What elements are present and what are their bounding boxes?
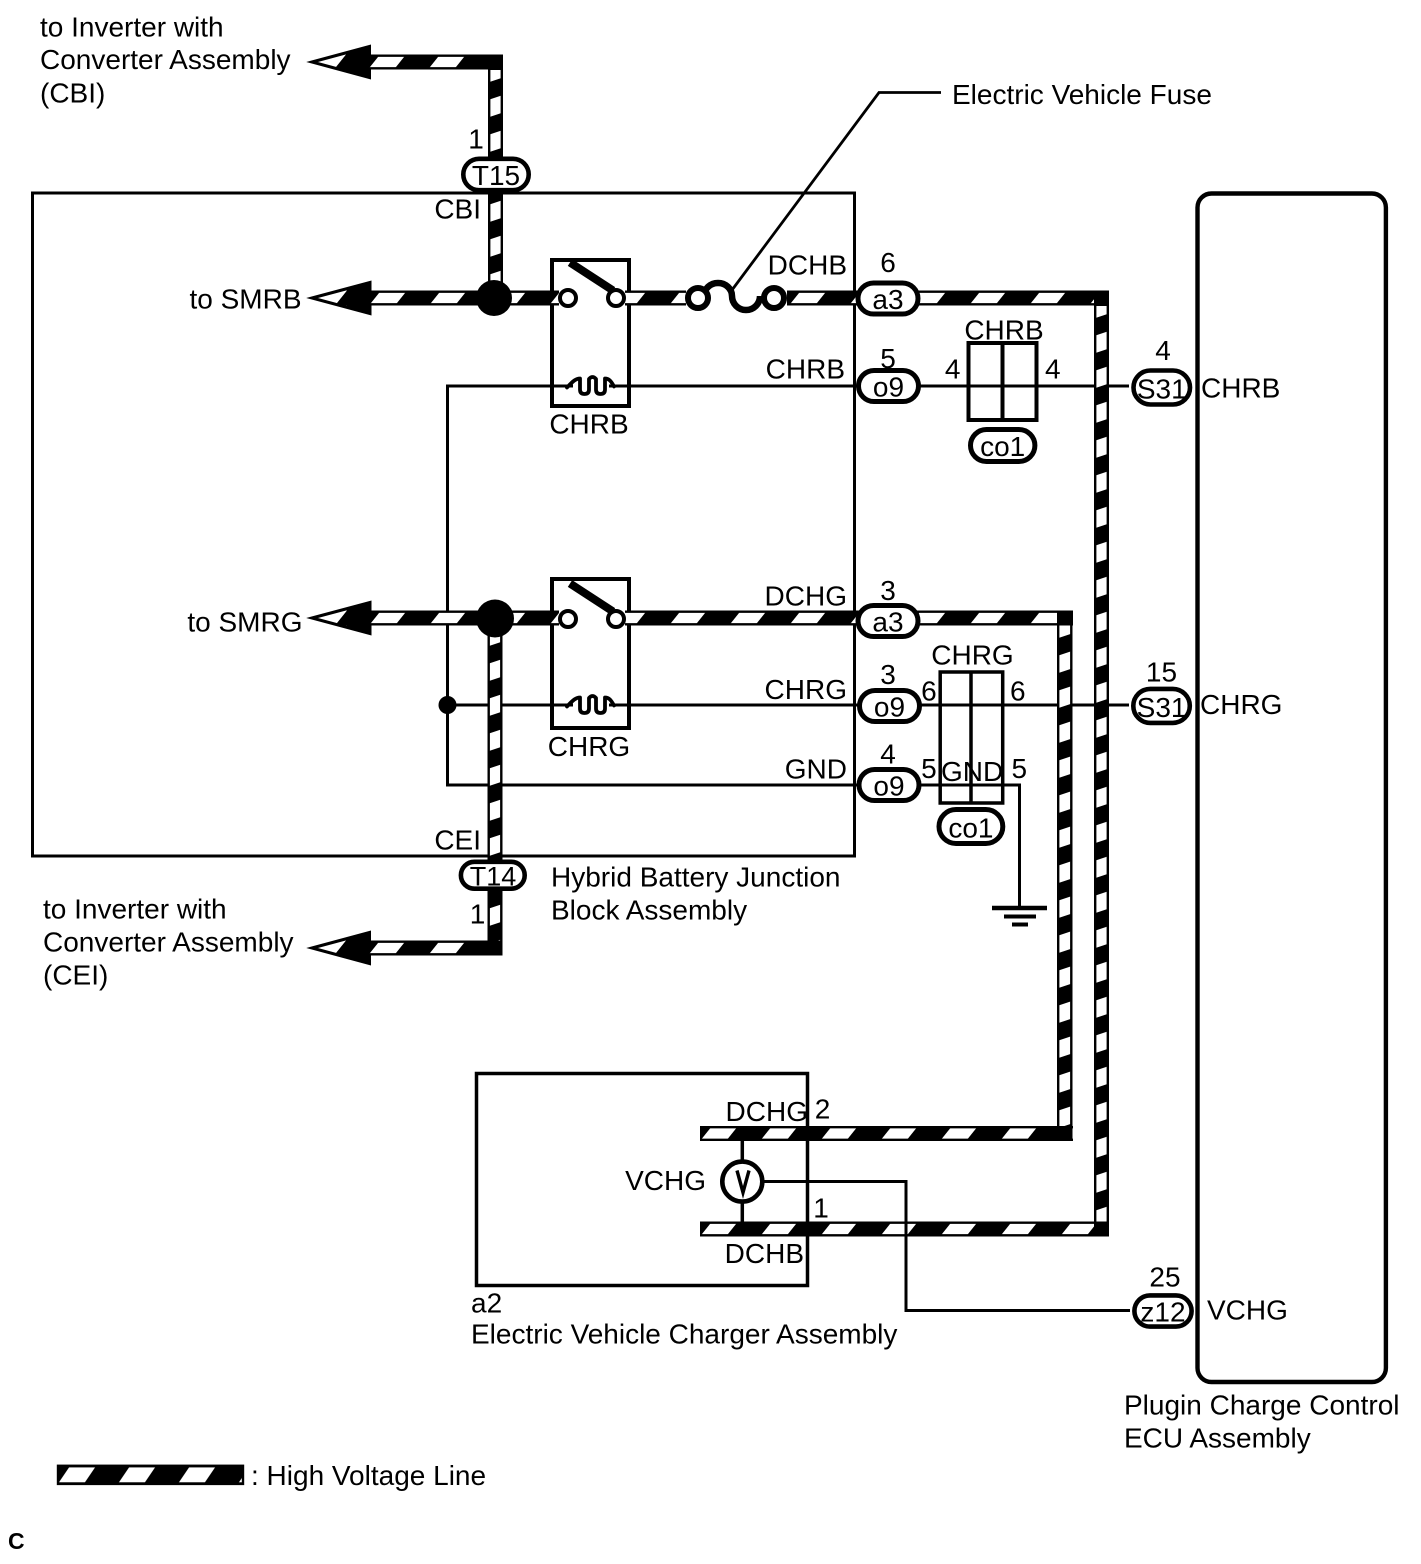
svg-text:DCHB: DCHB <box>725 1238 804 1269</box>
svg-text:(CEI): (CEI) <box>43 960 108 991</box>
label: to Inverter with Converter Assembly (CBI) <box>40 12 291 109</box>
svg-text:ECU Assembly: ECU Assembly <box>1124 1423 1311 1454</box>
connector T14 <box>461 862 525 892</box>
svg-text:6: 6 <box>1010 676 1026 707</box>
high voltage line: CEI vertical bus <box>488 619 503 948</box>
Electric Vehicle Fuse symbol <box>688 283 784 310</box>
svg-text:DCHB: DCHB <box>768 250 847 281</box>
svg-text:Plugin Charge Control: Plugin Charge Control <box>1124 1390 1400 1421</box>
svg-text:CHRB: CHRB <box>1201 373 1280 404</box>
svg-text:to Inverter with: to Inverter with <box>40 12 224 43</box>
svg-text:15: 15 <box>1146 657 1177 688</box>
connector block CHRG/GND (co1) <box>940 672 1003 803</box>
relay CHRB switch contacts <box>560 263 624 307</box>
high voltage line: charger DCHG row <box>700 1126 1073 1141</box>
connector S31 pin15 CHRG <box>1133 689 1190 723</box>
connector a3 pin6 DCHB <box>858 283 918 315</box>
label: Hybrid Battery Junction Block Assembly <box>551 862 840 926</box>
callout line: Electric Vehicle Fuse <box>732 93 941 291</box>
svg-text:Electric Vehicle Charger Assem: Electric Vehicle Charger Assembly <box>471 1319 897 1350</box>
svg-text:6: 6 <box>880 247 896 278</box>
svg-text:5: 5 <box>880 343 896 374</box>
wire: voltmeter stubs <box>741 1139 745 1161</box>
high voltage line: SMRG row with arrow to SMRG <box>312 603 1073 634</box>
svg-text:Electric Vehicle Fuse: Electric Vehicle Fuse <box>952 79 1212 110</box>
svg-text:Converter Assembly: Converter Assembly <box>40 44 291 75</box>
hv corner: CBI top <box>488 55 503 71</box>
high voltage line: DCHG vertical bus <box>1057 611 1073 1141</box>
high voltage line: CBI stub with arrow to Inverter (CBI) <box>312 47 503 78</box>
svg-text:1: 1 <box>468 124 484 155</box>
svg-text:CHRG: CHRG <box>1200 689 1282 720</box>
svg-text:CHRB: CHRB <box>964 315 1043 346</box>
svg-text:to SMRB: to SMRB <box>189 284 301 315</box>
box: Hybrid Battery Junction Block Assembly <box>33 193 855 856</box>
svg-text:to Inverter with: to Inverter with <box>43 894 227 925</box>
high voltage line: charger DCHB row <box>700 1222 1109 1237</box>
svg-text:T14: T14 <box>470 862 517 892</box>
hv corner: CEI bottom <box>488 941 503 956</box>
label: to Inverter with Converter Assembly (CEI) <box>43 894 294 991</box>
high voltage line: CBI vertical bus <box>488 55 503 298</box>
svg-text:4: 4 <box>1155 335 1171 366</box>
svg-text:CBI: CBI <box>434 194 481 225</box>
svg-text:S31: S31 <box>1137 692 1187 723</box>
svg-text:Converter Assembly: Converter Assembly <box>43 927 294 958</box>
junction dot SMRB/CBI <box>476 280 512 316</box>
svg-text:4: 4 <box>880 739 896 770</box>
high voltage line: SMRB row with arrow to SMRB <box>312 283 1109 314</box>
svg-text:6: 6 <box>921 676 937 707</box>
svg-text:co1: co1 <box>980 431 1025 462</box>
connector co1 (CHRB block) <box>971 430 1035 463</box>
svg-text:Hybrid Battery Junction: Hybrid Battery Junction <box>551 862 840 893</box>
connector o9 pin4 GND <box>859 770 919 802</box>
svg-text:25: 25 <box>1149 1262 1180 1293</box>
connector block CHRB (co1) <box>969 343 1037 420</box>
svg-text:2: 2 <box>815 1094 831 1125</box>
svg-text:CHRG: CHRG <box>548 731 630 762</box>
connector co1 (CHRG block) <box>939 810 1003 844</box>
svg-text:5: 5 <box>1012 753 1028 784</box>
svg-text:VCHG: VCHG <box>1207 1295 1288 1326</box>
relay CHRG box <box>552 579 629 728</box>
coil CHRG <box>567 696 614 713</box>
high voltage line: DCHB vertical bus <box>1094 291 1109 1237</box>
voltmeter V <box>722 1162 762 1202</box>
legend: high voltage line sample bar <box>58 1466 243 1484</box>
label: Plugin Charge Control ECU Assembly <box>1124 1390 1400 1454</box>
svg-text:DCHG: DCHG <box>765 581 847 612</box>
svg-text:o9: o9 <box>873 372 904 403</box>
wire: CHRB coil net (relay coil common to GND row) <box>448 386 1020 907</box>
svg-text:VCHG: VCHG <box>625 1165 706 1196</box>
wire: CHRG coil row to S31 <box>448 704 574 707</box>
svg-text:1: 1 <box>813 1193 829 1224</box>
coil CHRB <box>567 377 614 394</box>
relay CHRG switch contacts <box>560 584 624 628</box>
junction dot SMRG/CEI <box>476 600 514 638</box>
wire: CHRB row to S31 <box>609 385 1129 388</box>
svg-text:3: 3 <box>880 575 896 606</box>
junction dot coil common <box>439 696 457 714</box>
hv corner: DCHG bus bottom <box>1057 1126 1073 1141</box>
connector o9 pin3 CHRG <box>860 691 920 723</box>
svg-text:o9: o9 <box>873 771 904 802</box>
svg-text:S31: S31 <box>1137 374 1187 405</box>
svg-text:a2: a2 <box>471 1288 502 1319</box>
svg-text:a3: a3 <box>872 607 903 638</box>
connector S31 pin4 CHRB <box>1134 371 1191 405</box>
relay CHRB box <box>552 260 629 406</box>
svg-text:GND: GND <box>941 756 1003 787</box>
box: Plugin Charge Control ECU Assembly <box>1198 194 1386 1383</box>
connector T15 <box>463 159 528 191</box>
svg-text:CHRG: CHRG <box>931 640 1013 671</box>
svg-text:CHRG: CHRG <box>765 674 847 705</box>
hv corner: DCHB bus top <box>1094 291 1109 307</box>
ground symbol <box>992 908 1047 925</box>
svg-text:(CBI): (CBI) <box>40 78 105 109</box>
svg-text:T15: T15 <box>472 160 520 191</box>
connector a3 pin3 DCHG <box>858 606 918 638</box>
svg-text:CEI: CEI <box>434 825 481 856</box>
svg-text:co1: co1 <box>948 813 993 844</box>
hv corner: DCHB bus bottom <box>1094 1222 1109 1237</box>
svg-text:: High Voltage Line: : High Voltage Line <box>251 1460 486 1491</box>
svg-text:Block Assembly: Block Assembly <box>551 895 747 926</box>
svg-text:4: 4 <box>1045 354 1061 385</box>
high voltage line: CEI stub with arrow to Inverter (CEI) <box>312 933 502 964</box>
svg-text:1: 1 <box>470 899 486 930</box>
svg-text:CHRB: CHRB <box>549 409 628 440</box>
connector z12 pin25 VCHG <box>1134 1295 1191 1327</box>
svg-text:DCHG: DCHG <box>726 1096 808 1127</box>
wire: VCHG net voltmeter to z12 <box>764 1182 1130 1311</box>
svg-text:GND: GND <box>785 754 847 785</box>
svg-text:5: 5 <box>921 753 937 784</box>
svg-text:a3: a3 <box>872 284 903 315</box>
svg-text:3: 3 <box>880 659 896 690</box>
box: Electric Vehicle Charger Assembly <box>477 1074 808 1286</box>
svg-text:4: 4 <box>945 354 961 385</box>
svg-text:C: C <box>8 1528 25 1554</box>
svg-text:to SMRG: to SMRG <box>187 607 302 638</box>
svg-text:o9: o9 <box>874 692 905 723</box>
svg-text:CHRB: CHRB <box>766 354 845 385</box>
connector o9 pin5 CHRB <box>859 371 919 403</box>
svg-text:z12: z12 <box>1140 1297 1185 1328</box>
hv corner: DCHG bus top <box>1057 611 1073 626</box>
